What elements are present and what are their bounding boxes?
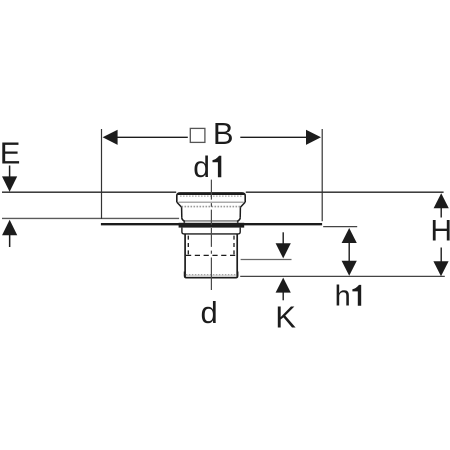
socket flare <box>182 218 240 223</box>
flange plate thick line right <box>242 223 322 225</box>
label d1 <box>193 151 221 184</box>
membrane bottom line left <box>2 217 179 219</box>
pipe outer walls <box>185 234 237 278</box>
dimension B line right with arrow <box>240 130 321 145</box>
socket taper <box>177 202 245 207</box>
socket body sides <box>182 207 241 218</box>
clamp band (thick black) <box>179 223 245 228</box>
dimension B extension line right <box>321 129 323 221</box>
dimension E lower arrow <box>2 220 17 247</box>
dimension H lower arrow <box>433 248 448 277</box>
socket stop dashed line <box>186 254 236 256</box>
dimension B extension line left <box>101 129 103 219</box>
membrane top line right segment <box>246 191 444 193</box>
dimension B line left with arrow <box>103 130 188 145</box>
collar <box>182 228 240 234</box>
dimension K lower arrow <box>276 278 291 301</box>
svg-text:K: K <box>275 299 296 334</box>
svg-text:d: d <box>200 295 217 330</box>
membrane top line left segment <box>2 191 176 193</box>
dimension E upper arrow <box>2 166 17 192</box>
K top tick line <box>241 259 292 261</box>
label B <box>213 116 234 151</box>
label h1 <box>335 281 362 313</box>
svg-text:B: B <box>213 116 234 151</box>
h1 double arrow <box>342 228 357 276</box>
square symbol of label B <box>190 128 205 142</box>
svg-text:E: E <box>0 136 20 171</box>
svg-text:h: h <box>335 281 351 313</box>
pipe bottom chamfer <box>185 272 238 278</box>
label H <box>430 215 450 248</box>
flange plate thick line left <box>101 223 180 225</box>
label E <box>0 136 20 171</box>
svg-text:d: d <box>193 151 210 184</box>
svg-text:H: H <box>430 215 450 248</box>
label K <box>275 299 296 334</box>
vertical centerline <box>210 180 212 290</box>
bottom reference line at pipe end <box>240 275 445 277</box>
socket rim <box>177 193 245 202</box>
dimension K upper arrow <box>276 232 291 258</box>
label d <box>200 295 217 330</box>
pipe inner walls dashed <box>188 236 234 255</box>
dimension H upper arrow <box>434 193 449 217</box>
h1 top tick line <box>323 226 357 228</box>
